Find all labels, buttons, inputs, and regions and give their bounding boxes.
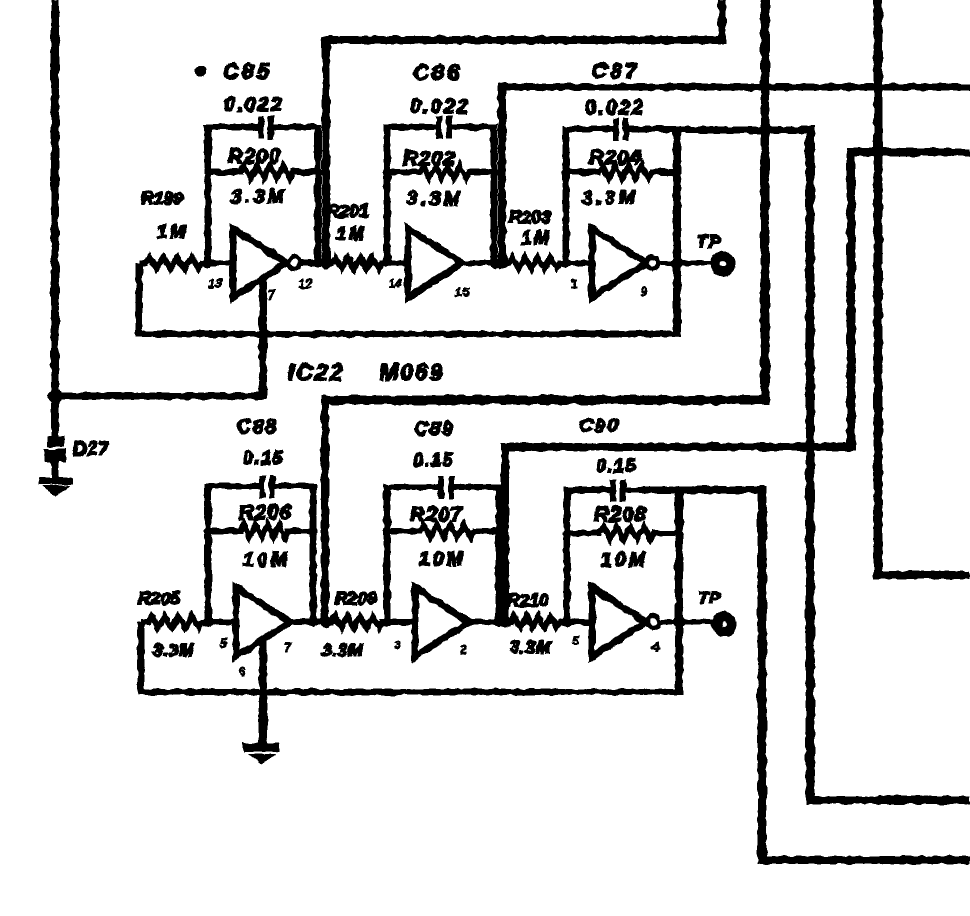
svg-text:0.15: 0.15 (596, 456, 637, 476)
svg-text:6: 6 (238, 665, 246, 679)
svg-text:3: 3 (394, 638, 401, 652)
svg-text:0.022: 0.022 (224, 94, 284, 116)
svg-text:R205: R205 (138, 588, 180, 608)
svg-text:IC22: IC22 (288, 359, 345, 385)
svg-text:R199: R199 (141, 188, 183, 208)
svg-text:0.022: 0.022 (410, 96, 470, 118)
svg-text:C90: C90 (579, 416, 620, 437)
svg-text:10M: 10M (243, 549, 290, 571)
svg-text:R207: R207 (410, 503, 464, 526)
svg-text:14: 14 (388, 277, 402, 291)
svg-text:C87: C87 (592, 60, 640, 83)
svg-text:C86: C86 (413, 60, 462, 85)
svg-text:R210: R210 (507, 590, 549, 610)
svg-text:R204: R204 (589, 146, 642, 169)
svg-text:3.3M: 3.3M (231, 187, 287, 208)
svg-text:1M: 1M (157, 222, 188, 242)
svg-text:4: 4 (651, 640, 659, 654)
svg-text:7: 7 (284, 641, 292, 655)
svg-text:10M: 10M (419, 548, 466, 570)
svg-text:9: 9 (640, 285, 647, 299)
svg-text:3.3M: 3.3M (322, 640, 363, 660)
svg-text:R209: R209 (335, 588, 377, 608)
svg-text:5: 5 (572, 634, 580, 648)
svg-text:15: 15 (455, 285, 470, 299)
svg-text:C88: C88 (237, 417, 278, 438)
svg-text:R208: R208 (594, 503, 647, 526)
svg-text:3.3M: 3.3M (582, 188, 638, 209)
svg-text:TP: TP (697, 232, 722, 251)
svg-text:0.15: 0.15 (243, 448, 284, 468)
svg-text:12: 12 (298, 277, 312, 291)
svg-text:10M: 10M (601, 549, 648, 571)
svg-text:7: 7 (268, 288, 276, 302)
svg-text:3.3M: 3.3M (510, 637, 551, 657)
svg-text:R203: R203 (509, 207, 551, 227)
svg-text:2: 2 (459, 643, 467, 657)
svg-text:3.3M: 3.3M (407, 189, 463, 210)
svg-text:5: 5 (220, 636, 228, 650)
svg-text:0.022: 0.022 (585, 97, 645, 119)
svg-text:R200: R200 (228, 145, 281, 168)
svg-text:13: 13 (208, 277, 222, 291)
svg-text:0.15: 0.15 (413, 450, 454, 470)
svg-text:TP: TP (698, 590, 721, 607)
svg-text:R201: R201 (327, 201, 369, 221)
svg-text:C85: C85 (223, 59, 272, 84)
svg-text:D27: D27 (73, 439, 109, 459)
svg-text:R202: R202 (403, 147, 456, 170)
svg-text:1M: 1M (336, 224, 367, 244)
svg-text:M069: M069 (379, 359, 445, 385)
svg-text:1: 1 (570, 277, 577, 291)
svg-text:3.3M: 3.3M (153, 640, 194, 660)
svg-text:1M: 1M (521, 228, 552, 248)
svg-text:C89: C89 (414, 419, 455, 440)
svg-text:R206: R206 (239, 501, 292, 524)
